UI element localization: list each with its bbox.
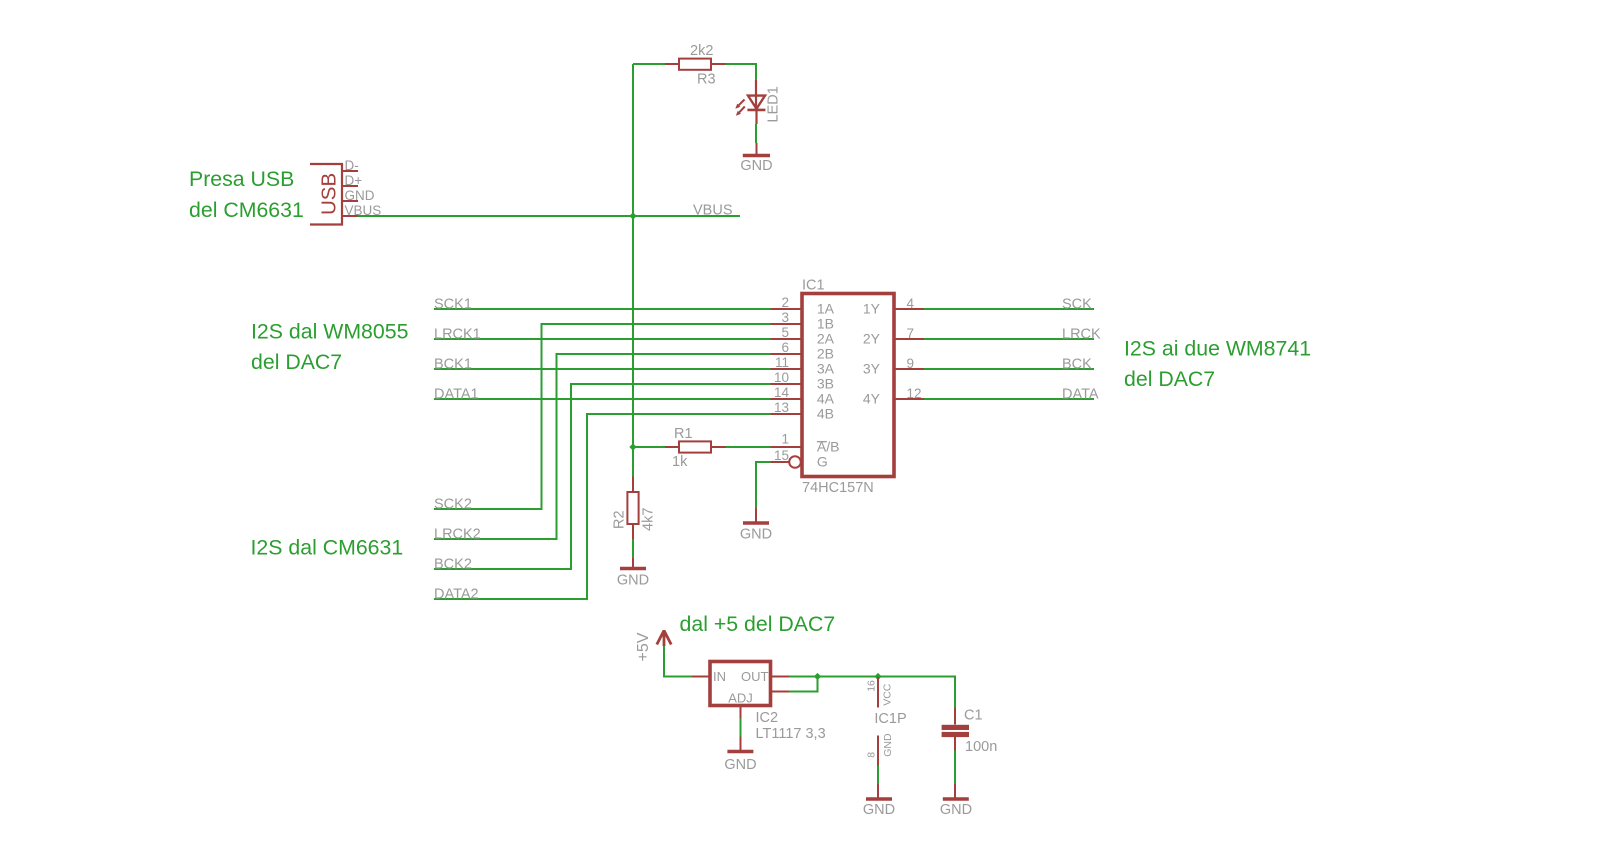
svg-text:BCK: BCK [1062,356,1092,372]
svg-text:3Y: 3Y [863,360,881,376]
svg-text:3A: 3A [817,360,835,376]
svg-text:2A: 2A [817,330,835,346]
svg-text:16: 16 [866,680,878,692]
svg-text:USB: USB [318,173,341,215]
svg-text:4B: 4B [817,405,834,421]
svg-text:VCC: VCC [882,683,894,706]
svg-text:SCK: SCK [1062,296,1092,312]
svg-text:OUT: OUT [741,669,769,684]
svg-text:74HC157N: 74HC157N [802,480,874,496]
svg-text:4: 4 [907,296,915,311]
svg-text:2B: 2B [817,345,834,361]
svg-text:8: 8 [866,752,878,758]
svg-text:LRCK1: LRCK1 [434,326,481,342]
svg-text:11: 11 [775,355,789,370]
svg-text:LRCK2: LRCK2 [434,526,481,542]
svg-text:1B: 1B [817,315,834,331]
svg-text:DATA2: DATA2 [434,586,479,602]
svg-text:LRCK: LRCK [1062,326,1101,342]
svg-text:D+: D+ [345,173,363,188]
svg-text:IC1: IC1 [802,278,825,294]
svg-text:GND: GND [882,733,894,757]
svg-text:2k2: 2k2 [690,43,713,59]
svg-text:LT1117 3,3: LT1117 3,3 [756,726,826,742]
svg-text:dal +5 del DAC7: dal +5 del DAC7 [680,612,836,636]
svg-text:IN: IN [713,669,726,684]
svg-text:Presa USB: Presa USB [189,167,294,191]
svg-text:C1: C1 [964,708,983,724]
svg-text:9: 9 [907,356,915,371]
svg-text:GND: GND [345,188,375,203]
svg-text:3B: 3B [817,375,834,391]
svg-text:100n: 100n [965,739,997,755]
svg-text:1: 1 [781,432,789,447]
svg-text:D-: D- [345,158,359,173]
svg-text:GND: GND [617,572,649,588]
svg-text:del DAC7: del DAC7 [251,350,342,374]
svg-text:I2S dal WM8055: I2S dal WM8055 [251,320,408,344]
svg-text:7: 7 [907,326,915,341]
svg-text:DATA: DATA [1062,386,1099,402]
svg-text:+5V: +5V [635,632,652,661]
svg-text:1A: 1A [817,300,835,316]
svg-text:IC1P: IC1P [874,711,906,727]
svg-text:del CM6631: del CM6631 [189,198,304,222]
svg-text:GND: GND [940,802,972,818]
svg-text:R3: R3 [697,72,716,88]
svg-text:LED1: LED1 [766,86,782,122]
svg-text:14: 14 [774,385,790,400]
svg-text:A/B: A/B [817,438,840,454]
svg-text:SCK2: SCK2 [434,496,472,512]
svg-text:G: G [817,453,828,469]
svg-text:R1: R1 [674,426,693,442]
svg-text:GND: GND [724,757,756,773]
svg-text:del DAC7: del DAC7 [1124,367,1215,391]
svg-text:2Y: 2Y [863,330,881,346]
svg-text:VBUS: VBUS [345,203,382,218]
svg-text:BCK2: BCK2 [434,556,472,572]
svg-text:4k7: 4k7 [641,508,657,531]
svg-text:I2S dal CM6631: I2S dal CM6631 [251,536,404,560]
svg-text:SCK1: SCK1 [434,296,472,312]
svg-text:ADJ: ADJ [728,691,753,706]
svg-text:1Y: 1Y [863,300,881,316]
svg-text:GND: GND [740,526,772,542]
svg-text:15: 15 [774,448,789,463]
svg-text:10: 10 [774,370,789,385]
svg-text:3: 3 [781,310,789,325]
svg-text:IC2: IC2 [756,710,779,726]
svg-text:GND: GND [863,802,895,818]
svg-text:6: 6 [781,340,789,355]
svg-text:1k: 1k [672,454,688,470]
svg-text:12: 12 [907,386,922,401]
svg-text:13: 13 [774,400,789,415]
svg-text:5: 5 [781,325,789,340]
svg-text:GND: GND [740,158,772,174]
svg-text:R2: R2 [611,510,627,529]
svg-text:BCK1: BCK1 [434,356,472,372]
svg-text:I2S ai due WM8741: I2S ai due WM8741 [1124,337,1311,361]
svg-text:4A: 4A [817,390,835,406]
svg-text:2: 2 [781,295,789,310]
svg-text:4Y: 4Y [863,390,881,406]
svg-text:VBUS: VBUS [693,203,733,219]
svg-text:DATA1: DATA1 [434,386,479,402]
